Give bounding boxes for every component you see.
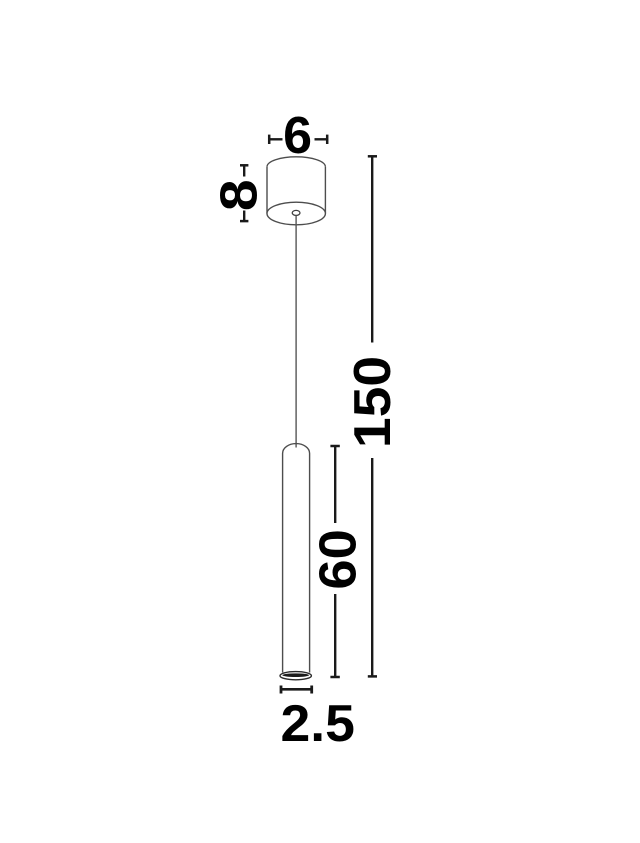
svg-text:2.5: 2.5 xyxy=(280,695,354,753)
svg-text:60: 60 xyxy=(309,529,367,589)
dimension 6 right tick xyxy=(326,135,329,144)
dimension 60 line lower segment xyxy=(334,594,336,676)
lamp tube aperture xyxy=(282,673,309,677)
lamp tube bottom rim outer ellipse xyxy=(280,672,311,680)
svg-text:150: 150 xyxy=(344,356,402,448)
dimension 2.5 left tick xyxy=(280,686,283,694)
canopy cylinder top arc xyxy=(267,157,325,167)
canopy cylinder bottom ellipse xyxy=(267,202,325,225)
dimension 8 line upper segment xyxy=(243,165,245,176)
canopy cylinder right side xyxy=(324,167,326,214)
dimension 6 line right segment xyxy=(315,138,328,140)
dimension 150 top tick xyxy=(368,155,377,158)
canopy cylinder left side xyxy=(266,167,268,214)
dimension 8 bottom tick xyxy=(240,220,248,223)
dimension 6 line left segment xyxy=(269,138,282,140)
dimension 150 line upper segment xyxy=(371,156,373,342)
suspension wire xyxy=(295,216,297,448)
dimension 150 line lower segment xyxy=(371,458,373,676)
dimension 150 bottom tick xyxy=(368,675,377,678)
canopy grommet xyxy=(292,210,300,215)
dimension 2.5 line xyxy=(281,688,312,691)
lamp tube body xyxy=(283,444,310,673)
dimension 8 top tick xyxy=(240,164,248,167)
dimension 6 left tick xyxy=(268,135,271,144)
dimension 60 line upper segment xyxy=(334,446,336,523)
dimension 2.5 right tick xyxy=(310,686,313,694)
dimension 8 line lower segment xyxy=(243,211,245,222)
svg-text:8: 8 xyxy=(210,179,268,211)
dimension 60 top tick xyxy=(330,445,339,448)
dimension 60 bottom tick xyxy=(330,676,339,679)
